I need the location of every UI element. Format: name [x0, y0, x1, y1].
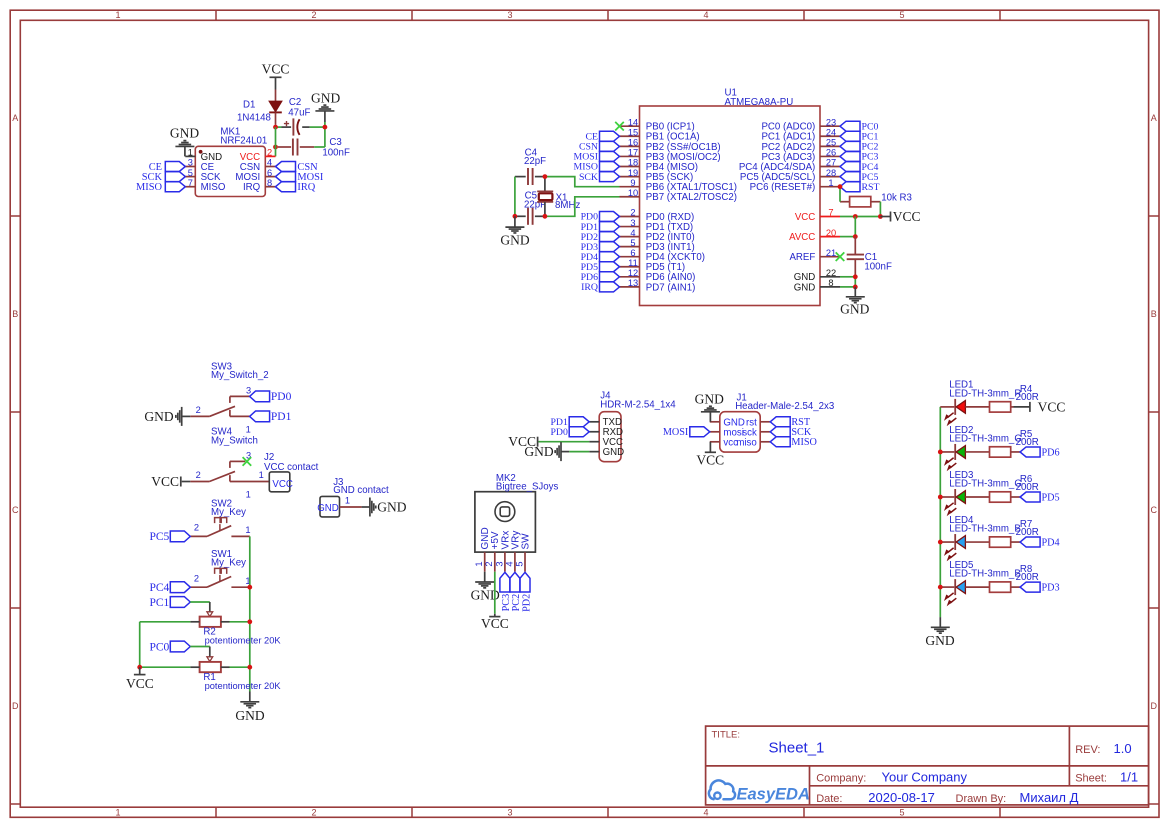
wire PC0 to R1 wiper	[190, 647, 210, 657]
wire XTAL2 to PB7	[545, 197, 620, 217]
wire GND pin8	[840, 286, 855, 288]
LED LED5 LED-TH-3mm_B	[940, 560, 1020, 595]
svg-text:B: B	[1151, 309, 1157, 319]
svg-text:7: 7	[188, 178, 193, 188]
power flag VCC (MK2)	[481, 614, 509, 631]
connector J1 Header-Male-2.54_2x3	[710, 393, 834, 453]
svg-text:2: 2	[630, 208, 635, 218]
svg-text:VCC: VCC	[1038, 400, 1066, 415]
svg-text:VCC: VCC	[262, 61, 290, 76]
svg-text:LED-TH-3mm_G: LED-TH-3mm_G	[949, 433, 1022, 444]
svg-text:1N4148: 1N4148	[237, 112, 271, 123]
port PD4 (LED)	[1020, 537, 1060, 548]
svg-text:A: A	[12, 113, 18, 123]
svg-text:22: 22	[826, 268, 836, 278]
wire R1 right	[230, 666, 250, 668]
svg-text:VCC: VCC	[272, 479, 292, 490]
junction R1 right	[247, 665, 252, 670]
svg-text:27: 27	[826, 158, 836, 168]
ground flag GND (switch bus)	[235, 692, 264, 723]
wire C3 right vertical	[324, 127, 326, 147]
resistor R6 200R	[990, 474, 1039, 502]
ruler ticks right	[1149, 216, 1159, 804]
svg-text:12: 12	[628, 268, 638, 278]
title block frame	[706, 726, 1149, 805]
svg-text:20: 20	[826, 228, 836, 238]
wire VCC to SW4	[182, 481, 191, 483]
svg-text:C2: C2	[289, 97, 301, 108]
port PC3 (U1)	[840, 151, 878, 162]
junction at C3 left	[273, 145, 278, 150]
capacitor C5 22pF	[515, 191, 546, 225]
ruler ticks left	[10, 216, 20, 804]
svg-text:GND contact: GND contact	[333, 485, 389, 496]
svg-text:GND: GND	[603, 447, 625, 458]
svg-text:1: 1	[345, 496, 350, 506]
port SCK (MK1)	[142, 172, 186, 183]
junction GND8	[853, 285, 858, 290]
crystal X1 8MHz	[537, 177, 580, 217]
svg-text:C3: C3	[329, 137, 341, 148]
svg-text:2: 2	[194, 523, 199, 533]
ground flag GND (crystal)	[500, 216, 529, 247]
wire crystal left vertical	[514, 177, 516, 217]
svg-text:Company:: Company:	[816, 772, 866, 784]
svg-text:RST: RST	[862, 182, 880, 193]
wire R5 to PD6	[1011, 451, 1020, 453]
LED LED3 LED-TH-3mm_G	[940, 470, 1022, 505]
svg-text:200R: 200R	[1016, 392, 1039, 403]
power flag VCC (top, above D1)	[262, 61, 290, 77]
port CSN (U1)	[579, 141, 620, 152]
ground flag GND (LED bus)	[925, 617, 954, 648]
svg-text:3: 3	[507, 807, 512, 817]
svg-text:3: 3	[188, 158, 193, 168]
svg-text:Sheet_1: Sheet_1	[769, 740, 825, 757]
wire VCC pin7 row	[840, 216, 880, 218]
port MISO (MK1)	[136, 182, 185, 193]
svg-text:PD2: PD2	[521, 594, 532, 612]
svg-text:REV:: REV:	[1075, 744, 1100, 756]
svg-text:AVCC: AVCC	[789, 232, 815, 243]
wire XTAL1 to PB6	[545, 177, 620, 187]
svg-text:1: 1	[115, 807, 120, 817]
svg-text:PD3: PD3	[1042, 582, 1060, 593]
svg-text:miso: miso	[736, 437, 756, 448]
wire left bus vertical	[139, 622, 141, 667]
svg-text:4: 4	[703, 807, 708, 817]
svg-text:PD4: PD4	[1042, 537, 1060, 548]
LED LED2 emission arrows	[945, 458, 957, 470]
wire R8 to PD3	[1011, 586, 1020, 588]
connector J4 HDR-M-2.54_1x4	[589, 390, 676, 461]
resistor R3 10k	[840, 192, 912, 207]
svg-text:PD5: PD5	[1042, 492, 1060, 503]
port PD2 (U1)	[581, 232, 620, 243]
wire R3 to VCC row	[879, 202, 881, 217]
svg-text:Header-Male-2.54_2x3: Header-Male-2.54_2x3	[735, 401, 834, 412]
svg-text:LED-TH-3mm_R: LED-TH-3mm_R	[949, 388, 1021, 399]
svg-text:PC4: PC4	[149, 582, 169, 594]
svg-text:6: 6	[267, 168, 272, 178]
svg-text:4: 4	[504, 562, 514, 567]
port MOSI (MK1)	[276, 172, 324, 183]
svg-text:potentiometer 20K: potentiometer 20K	[205, 636, 282, 646]
svg-text:SCK: SCK	[579, 172, 598, 183]
svg-text:PC0: PC0	[149, 641, 169, 653]
svg-text:18: 18	[628, 158, 638, 168]
port PD0 (SW3)	[250, 391, 292, 403]
resistor R8 200R	[990, 564, 1039, 592]
svg-text:11: 11	[628, 258, 638, 268]
svg-text:PC6 (RESET#): PC6 (RESET#)	[750, 182, 816, 193]
ground flag GND (SW3)	[144, 407, 190, 426]
wire GND vertical	[854, 277, 856, 287]
svg-text:LED-TH-3mm_B: LED-TH-3mm_B	[949, 523, 1021, 534]
port PC5	[149, 531, 190, 543]
svg-text:3: 3	[494, 562, 504, 567]
switch SW2 My_Key	[190, 498, 250, 536]
capacitor C1 100nF	[847, 237, 892, 277]
ground flag GND (J3)	[362, 498, 407, 517]
ground flag GND (below C1)	[840, 287, 869, 316]
svg-text:5: 5	[899, 807, 904, 817]
svg-text:MOSI: MOSI	[663, 427, 689, 438]
ruler letters left	[12, 113, 19, 711]
title block texts	[712, 730, 1139, 805]
LED LED1 LED-TH-3mm_R	[940, 380, 1021, 415]
no-connect flag on PB0	[615, 122, 624, 131]
svg-text:VCC: VCC	[151, 474, 179, 489]
power flag VCC (right of U1)	[880, 209, 920, 224]
resistor R4 200R	[990, 384, 1039, 412]
svg-text:3: 3	[246, 386, 251, 396]
svg-text:2: 2	[196, 470, 201, 480]
svg-text:100nF: 100nF	[864, 262, 892, 273]
connector J3 GND contact	[317, 477, 389, 517]
ground flag GND (J1)	[695, 391, 724, 422]
svg-text:GND: GND	[925, 633, 954, 648]
svg-text:1: 1	[115, 10, 120, 20]
wire RST to R3	[839, 187, 841, 202]
module MK1 NRF24L01	[185, 126, 275, 196]
junction LED bus LED3	[938, 495, 943, 500]
svg-text:Your Company: Your Company	[882, 769, 968, 784]
port IRQ (U1)	[581, 282, 619, 293]
svg-text:1: 1	[188, 148, 193, 158]
potentiometer R2 20K	[190, 612, 281, 646]
svg-text:2: 2	[484, 562, 494, 567]
svg-text:7: 7	[828, 208, 833, 218]
junction XTAL1	[543, 174, 548, 179]
LED LED5 emission arrows	[945, 593, 957, 605]
port PD6 (LED)	[1020, 447, 1060, 458]
svg-text:SW: SW	[520, 533, 531, 550]
ground flag GND (top right of MK1)	[311, 90, 340, 122]
ruler ticks top	[216, 10, 1000, 20]
svg-text:GND: GND	[317, 503, 339, 514]
wire SW4 to J2	[230, 481, 269, 483]
svg-text:PD6: PD6	[1042, 447, 1060, 458]
LED LED4 LED-TH-3mm_B	[940, 515, 1020, 550]
port RST (U1)	[840, 182, 879, 193]
svg-text:1: 1	[246, 424, 251, 434]
svg-text:PD0: PD0	[271, 391, 292, 403]
svg-text:2: 2	[194, 574, 199, 584]
junction R2 right	[247, 619, 252, 624]
svg-text:NRF24L01: NRF24L01	[220, 136, 267, 147]
port PC5 (U1)	[840, 172, 878, 183]
svg-text:B: B	[12, 309, 18, 319]
svg-text:GND: GND	[235, 708, 264, 723]
port PD6 (U1)	[581, 272, 620, 283]
svg-text:D: D	[12, 701, 19, 711]
svg-text:TITLE:: TITLE:	[712, 730, 741, 741]
svg-text:VCC: VCC	[481, 616, 509, 631]
wire VCC flag to D1	[275, 77, 277, 89]
svg-text:C: C	[1151, 505, 1158, 515]
svg-text:24: 24	[826, 127, 836, 137]
junction GND22	[853, 274, 858, 279]
svg-text:5: 5	[188, 168, 193, 178]
svg-text:1: 1	[246, 489, 251, 499]
U1 right power pins VCC AVCC AREF GND GND	[789, 208, 840, 294]
switch SW4 My_Switch	[190, 427, 258, 500]
svg-text:A: A	[1151, 113, 1157, 123]
svg-text:15: 15	[628, 127, 638, 137]
svg-text:IRQ: IRQ	[297, 182, 315, 193]
svg-text:8MHz: 8MHz	[555, 200, 580, 211]
junction LED bus LED5	[938, 585, 943, 590]
power flag VCC (LED1)	[1030, 400, 1065, 415]
port PC1 (U1)	[840, 131, 878, 142]
svg-text:100nF: 100nF	[322, 148, 350, 159]
svg-text:4: 4	[630, 228, 635, 238]
svg-text:PD7 (AIN1): PD7 (AIN1)	[646, 282, 696, 293]
svg-text:8: 8	[267, 178, 272, 188]
svg-text:IRQ: IRQ	[243, 182, 261, 193]
junction at C2-GND corner	[323, 125, 328, 130]
svg-text:23: 23	[826, 117, 836, 127]
LED LED4 emission arrows	[945, 548, 957, 560]
port PD1 (SW3)	[250, 411, 292, 423]
svg-text:1: 1	[245, 525, 250, 535]
svg-text:47uF: 47uF	[288, 107, 310, 118]
svg-text:2020-08-17: 2020-08-17	[868, 790, 935, 805]
wire GND flag down to C2 row	[324, 122, 326, 127]
svg-text:MISO: MISO	[136, 182, 162, 193]
wire R7 to PD4	[1011, 541, 1020, 543]
svg-text:25: 25	[826, 138, 836, 148]
IC U1 ATMEGA8A-PU body	[640, 88, 821, 306]
power flag VCC (J1)	[696, 442, 724, 468]
wire AVCC pin	[840, 236, 855, 238]
port PD1 (U1)	[581, 222, 620, 233]
svg-text:PC1: PC1	[149, 597, 169, 609]
wire VCC to AVCC vertical	[854, 217, 856, 237]
switch SW1 My_Key	[190, 549, 250, 587]
wire R2 right	[230, 621, 250, 623]
junction LED bus LED4	[938, 540, 943, 545]
svg-text:2: 2	[311, 807, 316, 817]
svg-text:1/1: 1/1	[1120, 769, 1138, 784]
port CSN (MK1)	[276, 162, 319, 173]
port SCK (U1)	[579, 172, 620, 183]
svg-text:D: D	[1151, 701, 1158, 711]
port PD5 (U1)	[581, 262, 620, 273]
wire R4 to VCC	[1011, 406, 1030, 408]
power flag VCC (SW4)	[151, 474, 181, 489]
EasyEDA logo	[709, 780, 810, 803]
diode D1 1N4148	[237, 90, 282, 125]
wire LED cathode bus	[939, 407, 941, 617]
svg-text:21: 21	[826, 248, 836, 258]
wire R2 left	[140, 621, 191, 623]
port PC2 (U1)	[840, 141, 878, 152]
svg-text:My_Key: My_Key	[211, 507, 246, 518]
port PC2 (MK2)	[510, 572, 522, 611]
LED LED1 emission arrows	[945, 413, 957, 425]
svg-text:My_Switch_2: My_Switch_2	[211, 370, 269, 381]
junction VCC row right	[878, 214, 883, 219]
ground flag GND (left of MK1)	[170, 125, 199, 156]
svg-text:2: 2	[311, 10, 316, 20]
junction AVCC	[853, 234, 858, 239]
connector J2 VCC contact	[259, 452, 319, 492]
LED LED2 LED-TH-3mm_G	[940, 425, 1022, 460]
svg-text:Sheet:: Sheet:	[1075, 772, 1107, 784]
power flag VCC (bottom left)	[126, 667, 154, 691]
svg-text:MISO: MISO	[201, 182, 226, 193]
ruler numbers top	[115, 10, 904, 20]
svg-text:Bigtree_SJoys: Bigtree_SJoys	[496, 481, 559, 492]
port PD4 (U1)	[581, 252, 620, 263]
svg-text:10: 10	[628, 188, 638, 198]
svg-text:My_Key: My_Key	[211, 558, 246, 569]
junction SW1 output	[247, 585, 252, 590]
port MOSI (U1)	[574, 151, 620, 162]
svg-text:PD0: PD0	[550, 427, 568, 438]
port RST (J1)	[770, 417, 811, 428]
svg-text:1: 1	[259, 470, 264, 480]
svg-text:5: 5	[514, 562, 524, 567]
port CE (U1)	[585, 131, 619, 142]
junction at VCC-D1-C2	[273, 125, 278, 130]
svg-text:GND: GND	[524, 444, 553, 459]
svg-text:1: 1	[828, 178, 833, 188]
capacitor C2 47uF	[282, 97, 311, 136]
svg-text:GND: GND	[144, 409, 173, 424]
port SCK (J1)	[770, 427, 812, 438]
wire VCC net row	[276, 126, 282, 128]
svg-text:HDR-M-2.54_1x4: HDR-M-2.54_1x4	[600, 400, 676, 411]
port PD3 (LED)	[1020, 582, 1060, 593]
wire GND pin22	[840, 276, 855, 278]
no-connect flag on AREF	[836, 252, 845, 261]
svg-text:potentiometer 20K: potentiometer 20K	[205, 681, 282, 691]
LED LED3 emission arrows	[945, 503, 957, 515]
svg-text:C: C	[12, 505, 19, 515]
svg-text:10k R3: 10k R3	[881, 192, 912, 203]
svg-text:1: 1	[474, 562, 484, 567]
svg-text:6: 6	[630, 248, 635, 258]
module MK2 Bigtree_SJoys	[474, 473, 558, 572]
svg-text:ATMEGA8A-PU: ATMEGA8A-PU	[725, 97, 794, 108]
port PC3 (MK2)	[500, 572, 512, 611]
junction RST	[838, 184, 843, 189]
no-connect flag SW4 pin3	[243, 457, 252, 466]
switch SW3 My_Switch_2	[190, 362, 268, 435]
port PC4 (U1)	[840, 162, 878, 173]
port CE (MK1)	[149, 162, 186, 173]
wire C3 to corner	[314, 146, 325, 148]
resistor R7 200R	[990, 519, 1039, 547]
svg-text:GND: GND	[695, 391, 724, 406]
svg-text:8: 8	[828, 278, 833, 288]
U1 left pins PB0-PB7	[620, 117, 737, 203]
svg-text:1.0: 1.0	[1114, 741, 1132, 756]
capacitor C4 22pF	[515, 148, 546, 185]
wire VCC vertical to MK1 pin2	[275, 127, 277, 156]
port PC0	[149, 641, 190, 653]
svg-text:4: 4	[703, 10, 708, 20]
port PC0 (U1)	[840, 121, 878, 132]
svg-text:PC5: PC5	[149, 531, 169, 543]
wire C2 to GND corner	[310, 126, 325, 128]
svg-text:3: 3	[630, 218, 635, 228]
wire R1 left	[140, 666, 191, 668]
svg-text:GND: GND	[500, 233, 529, 248]
svg-text:GND: GND	[377, 500, 406, 515]
svg-text:Drawn By:: Drawn By:	[956, 793, 1007, 805]
U1 right pins PC0-PC6	[739, 117, 840, 193]
svg-text:VCC: VCC	[795, 212, 815, 223]
svg-text:LED-TH-3mm_B: LED-TH-3mm_B	[949, 569, 1021, 580]
svg-text:22pF: 22pF	[524, 156, 546, 167]
port PD3 (U1)	[581, 242, 620, 253]
svg-text:16: 16	[628, 138, 638, 148]
port PD0 (J4)	[550, 427, 589, 438]
port MISO (U1)	[574, 162, 620, 173]
wire R6 to PD5	[1011, 496, 1020, 498]
svg-text:Date:: Date:	[816, 793, 842, 805]
svg-text:PD1: PD1	[271, 411, 292, 423]
power flag VCC (J4)	[508, 434, 537, 449]
svg-text:14: 14	[628, 117, 638, 127]
wire VCC to J4	[539, 441, 590, 443]
svg-text:GND: GND	[170, 125, 199, 140]
wire MK2 +5V to VCC	[494, 572, 496, 614]
wire switches bus vertical	[249, 536, 251, 691]
svg-text:19: 19	[628, 168, 638, 178]
ruler letters right	[1151, 113, 1158, 711]
port PD1 (J4)	[550, 417, 589, 428]
svg-text:28: 28	[826, 168, 836, 178]
port PD2 (MK2)	[520, 572, 532, 612]
svg-text:GND: GND	[311, 90, 340, 105]
svg-text:5: 5	[630, 238, 635, 248]
wire PC1 to R2 wiper	[190, 602, 210, 612]
port PC4	[149, 582, 190, 594]
U1 left pins PD0-PD7	[620, 208, 706, 294]
svg-text:EasyEDA: EasyEDA	[737, 786, 810, 804]
junction XTAL2	[543, 214, 548, 219]
svg-text:26: 26	[826, 148, 836, 158]
ruler numbers bottom	[115, 807, 904, 817]
svg-text:5: 5	[899, 10, 904, 20]
svg-text:LED-TH-3mm_G: LED-TH-3mm_G	[949, 478, 1022, 489]
ruler ticks bottom	[216, 807, 1000, 817]
